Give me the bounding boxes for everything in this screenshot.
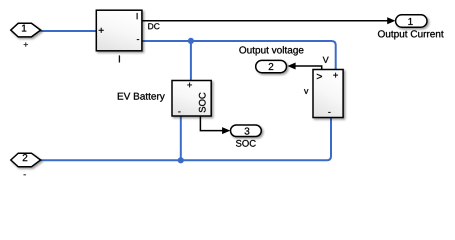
input port 2 (hexagonal connection port) [11,153,41,167]
pin label V of voltage sensor output [323,57,329,63]
outport 3 (oval) [231,125,262,137]
pin + of EV battery [187,83,192,88]
outport 2 (oval) [256,60,287,72]
current sensor I (block body) [96,10,142,51]
wire: voltage sensor V output to outport 2 (signal) [295,66,322,70]
port number 2 [269,63,274,70]
port number 1 [408,18,412,25]
label DC on current signal wire [148,23,159,29]
block name EV Battery [118,93,165,102]
wire: junction A down to EV battery + terminal [190,41,192,81]
outport 1 (oval) [396,15,427,27]
node A: junction on + rail [188,38,194,44]
pin + of voltage sensor [333,73,338,78]
pin SOC of EV battery (rotated label) [199,93,206,113]
port number 1 [22,25,26,32]
wire: EV battery SOC output to outport 3 (signal) [200,116,222,131]
pin - of EV battery [178,111,180,114]
label SOC [236,140,256,147]
port number 2 [23,154,28,161]
wire: current sensor I output to outport 1 (signal) [142,20,388,22]
pin - of current sensor [137,38,139,41]
pin - of voltage sensor [328,111,330,114]
pin > (physical signal output marker) of voltage sensor [317,74,322,79]
pin + of current sensor [99,28,104,33]
wire: bottom rail, input port 2 to voltage sensor - terminal [41,117,332,160]
wire: EV battery - terminal down to junction B [180,116,182,160]
label + under input port 1 [24,42,28,46]
node B: junction on - rail [178,157,184,163]
voltage sensor v (block body) [313,70,343,118]
wire: current sensor - terminal to voltage sensor + terminal [142,41,336,70]
pin I (current output) of current sensor [136,13,139,19]
block name I [118,56,121,63]
EV Battery (block body) [172,81,211,117]
port number 3 [245,128,250,135]
label - under input port 2 [24,173,26,176]
block name v [304,89,308,94]
label Output Current [378,30,444,39]
wire: input port 1 to current sensor + terminal [41,30,97,32]
input port 1 (hexagonal connection port) [11,23,41,37]
label Output voltage [239,46,303,55]
